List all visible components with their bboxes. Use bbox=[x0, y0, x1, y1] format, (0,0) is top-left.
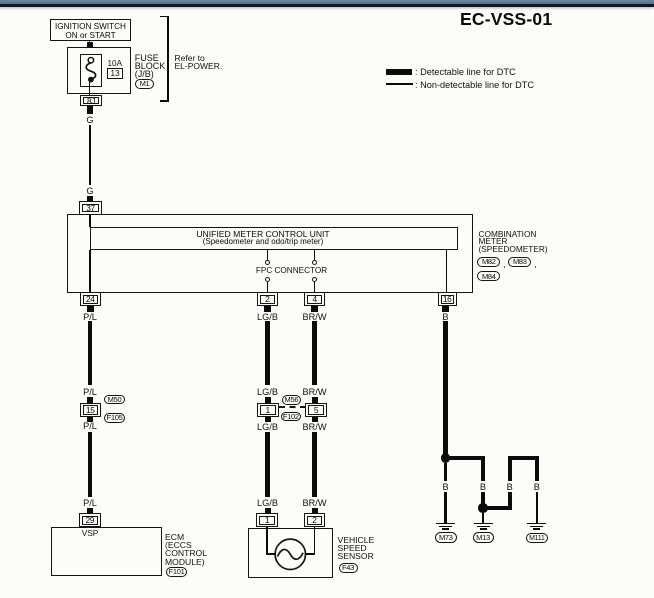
wire label G lower bbox=[86, 187, 93, 196]
pin stub above 37 bbox=[87, 196, 93, 202]
wire G thin bbox=[89, 125, 91, 185]
FPC circle col3 bottom bbox=[312, 277, 317, 282]
wire P/L lower thick bbox=[88, 432, 93, 497]
wire LG/B lower thick bbox=[265, 432, 270, 497]
pin stub below 4 bbox=[311, 306, 318, 312]
fuse symbol bbox=[80, 54, 102, 87]
terminal 37 bbox=[79, 201, 101, 214]
wire B4 to ground bbox=[536, 492, 539, 524]
wire label B col3 bbox=[507, 483, 513, 492]
FPC circle col3 top bbox=[312, 260, 317, 265]
wire label B bbox=[442, 313, 448, 322]
FPC circle col2 bottom bbox=[265, 277, 270, 282]
wire label B col4 bbox=[534, 483, 540, 492]
connector M1 oval bbox=[135, 79, 154, 89]
wire label P/L above connector 15 bbox=[83, 388, 97, 397]
pin stub above mid connector 5 bbox=[312, 397, 318, 404]
window top bar bbox=[0, 0, 654, 4]
pin stub above VSS 2 bbox=[312, 508, 318, 514]
pin stub below mid connector 5 bbox=[312, 417, 318, 422]
refer-to bracket vertical bbox=[167, 16, 169, 103]
terminal 1 VSS bbox=[256, 513, 278, 527]
fuse block box bbox=[67, 47, 131, 94]
label COMBINATION METER (SPEEDOMETER) bbox=[479, 231, 548, 254]
wire B1 below junction bbox=[444, 463, 447, 482]
wire B3 vertical upper bbox=[508, 456, 512, 481]
label FUSE BLOCK (J/B) bbox=[135, 54, 166, 78]
connector M56 oval bbox=[282, 395, 302, 404]
terminal 29 bbox=[79, 513, 101, 527]
pin stub below 8J bbox=[87, 106, 93, 114]
pin stub below mid connector 1 bbox=[265, 417, 271, 422]
unified meter control unit inner box bbox=[90, 227, 459, 250]
FPC wire col2 lower bbox=[267, 282, 268, 293]
FPC CONNECTOR label bbox=[256, 267, 327, 275]
wire B2 below junction to ground bbox=[482, 513, 485, 523]
ground connector M73 oval bbox=[435, 532, 457, 543]
connector F102 oval bbox=[281, 412, 301, 421]
wire B3 vertical lower bbox=[508, 492, 512, 511]
VSS box bbox=[248, 528, 333, 578]
wire label BR/W above connector 5 bbox=[303, 388, 327, 397]
combination meter outer box bbox=[67, 214, 473, 293]
connector F101 oval bbox=[166, 567, 187, 577]
wire label B col1 bbox=[443, 483, 449, 492]
connector M83 oval bbox=[508, 257, 531, 267]
ground connector M111 oval bbox=[526, 533, 548, 544]
pin stub above 15 bbox=[87, 397, 93, 404]
connector 8J bbox=[80, 95, 102, 107]
terminal 16 bbox=[438, 292, 457, 306]
pin stub below 16 bbox=[442, 306, 449, 312]
comma after M83 bbox=[534, 260, 537, 269]
wire fuse to 8J bbox=[89, 82, 91, 96]
terminal 4 bbox=[304, 292, 325, 306]
wire B3 to B4 top horizontal bbox=[508, 456, 540, 460]
pin stub above mid connector 1 bbox=[265, 397, 271, 404]
wire label BR/W below connector 5 bbox=[303, 423, 327, 432]
wire B4 vertical upper bbox=[535, 456, 539, 481]
label VSP bbox=[82, 529, 99, 537]
wire label G bbox=[86, 116, 93, 125]
legend thin line sample bbox=[386, 83, 413, 85]
connector F43 oval bbox=[339, 563, 358, 573]
pin stub below 2 bbox=[264, 306, 271, 312]
wire label P/L bbox=[83, 313, 97, 322]
ground connector M13 oval bbox=[473, 532, 494, 543]
wire label BR/W bbox=[303, 313, 327, 322]
junction dot 1 bbox=[441, 453, 451, 463]
fuse number 13 box bbox=[107, 68, 124, 79]
wire label P/L below connector 15 bbox=[83, 422, 97, 431]
refer-to bracket top tick bbox=[160, 16, 168, 18]
wire label BR/W above VSS bbox=[303, 499, 327, 508]
terminal 24 bbox=[80, 292, 101, 306]
connector 15 bbox=[80, 403, 102, 417]
legend text non-detectable bbox=[415, 81, 534, 90]
VSS internal wire left bbox=[266, 527, 268, 555]
connector M50 oval bbox=[104, 395, 125, 405]
VSS internal wire right bbox=[314, 527, 316, 555]
wire B1 to ground bbox=[444, 492, 447, 524]
wire inner box to terminal 16 bbox=[446, 250, 448, 293]
pin stub above VSS 1 bbox=[265, 508, 271, 514]
wire label LG/B above connector 1 bbox=[257, 388, 278, 397]
wire LG/B upper thick bbox=[265, 321, 270, 385]
wire B2 vertical upper bbox=[481, 456, 486, 481]
wire BR/W lower thick bbox=[312, 432, 317, 497]
title EC-VSS-01 bbox=[460, 9, 552, 30]
wire B2 vertical to junction 2 bbox=[481, 492, 486, 505]
connector F105 oval bbox=[104, 413, 125, 423]
connector M82 oval bbox=[477, 257, 500, 267]
wire BR/W upper thick bbox=[312, 321, 317, 385]
comma after M82 bbox=[503, 260, 506, 269]
wire label P/L above ECM bbox=[83, 499, 97, 508]
ground symbol M13 bbox=[474, 523, 493, 525]
wire 37 to inner box bbox=[89, 214, 91, 227]
ground symbol M73 bbox=[436, 523, 455, 525]
wire label LG/B above VSS bbox=[257, 499, 278, 508]
junction dot 2 bbox=[478, 503, 488, 513]
label ECM (ECCS CONTROL MODULE) bbox=[165, 533, 207, 566]
FPC wire col3 upper bbox=[314, 250, 315, 261]
label VEHICLE SPEED SENSOR bbox=[338, 536, 375, 561]
wire label LG/B bbox=[257, 313, 278, 322]
pin stub below 15 bbox=[87, 417, 93, 422]
ECM box bbox=[51, 527, 162, 576]
wire label LG/B below connector 1 bbox=[257, 423, 278, 432]
ground symbol M111 bbox=[527, 523, 546, 525]
FPC circle col2 top bbox=[265, 260, 270, 265]
VSS internal wire left horizontal bbox=[266, 553, 276, 555]
connector M84 oval bbox=[477, 271, 500, 281]
legend text detectable bbox=[415, 68, 516, 77]
pin stub above fuse block bbox=[87, 42, 93, 47]
VSS internal wire right horizontal bbox=[305, 553, 315, 555]
terminal 2 bbox=[257, 292, 278, 306]
refer-to bracket bottom tick bbox=[160, 100, 168, 102]
wire junction1 to B2 branch horizontal bbox=[446, 456, 486, 461]
wire label B col2 bbox=[480, 483, 486, 492]
ignition switch box bbox=[50, 19, 131, 41]
wire B thick bbox=[443, 321, 448, 456]
wire junction2 to B3 horizontal bbox=[483, 506, 512, 510]
legend thick line sample bbox=[386, 69, 412, 75]
fuse value 10A bbox=[108, 60, 123, 68]
pin stub below 24 bbox=[87, 306, 94, 312]
wire inner box to terminal 24 bbox=[89, 250, 91, 293]
mid connector 1 bbox=[257, 403, 279, 417]
pin stub above 29 bbox=[87, 508, 93, 514]
mid connector 5 bbox=[305, 403, 327, 417]
terminal 2 VSS bbox=[304, 513, 326, 527]
wire P/L upper thick bbox=[88, 321, 93, 385]
label Refer to EL-POWER bbox=[175, 55, 223, 70]
VSS generator circle with sine bbox=[274, 538, 307, 571]
fuse 10A rectangle bbox=[80, 54, 102, 87]
unified meter control unit text bbox=[196, 230, 329, 247]
window top bar dark line bbox=[0, 4, 654, 6]
FPC wire col2 upper bbox=[267, 250, 268, 261]
dashed link between connectors bbox=[279, 406, 306, 408]
wire ignition to fuse bbox=[89, 41, 91, 58]
FPC wire col3 lower bbox=[314, 282, 315, 293]
